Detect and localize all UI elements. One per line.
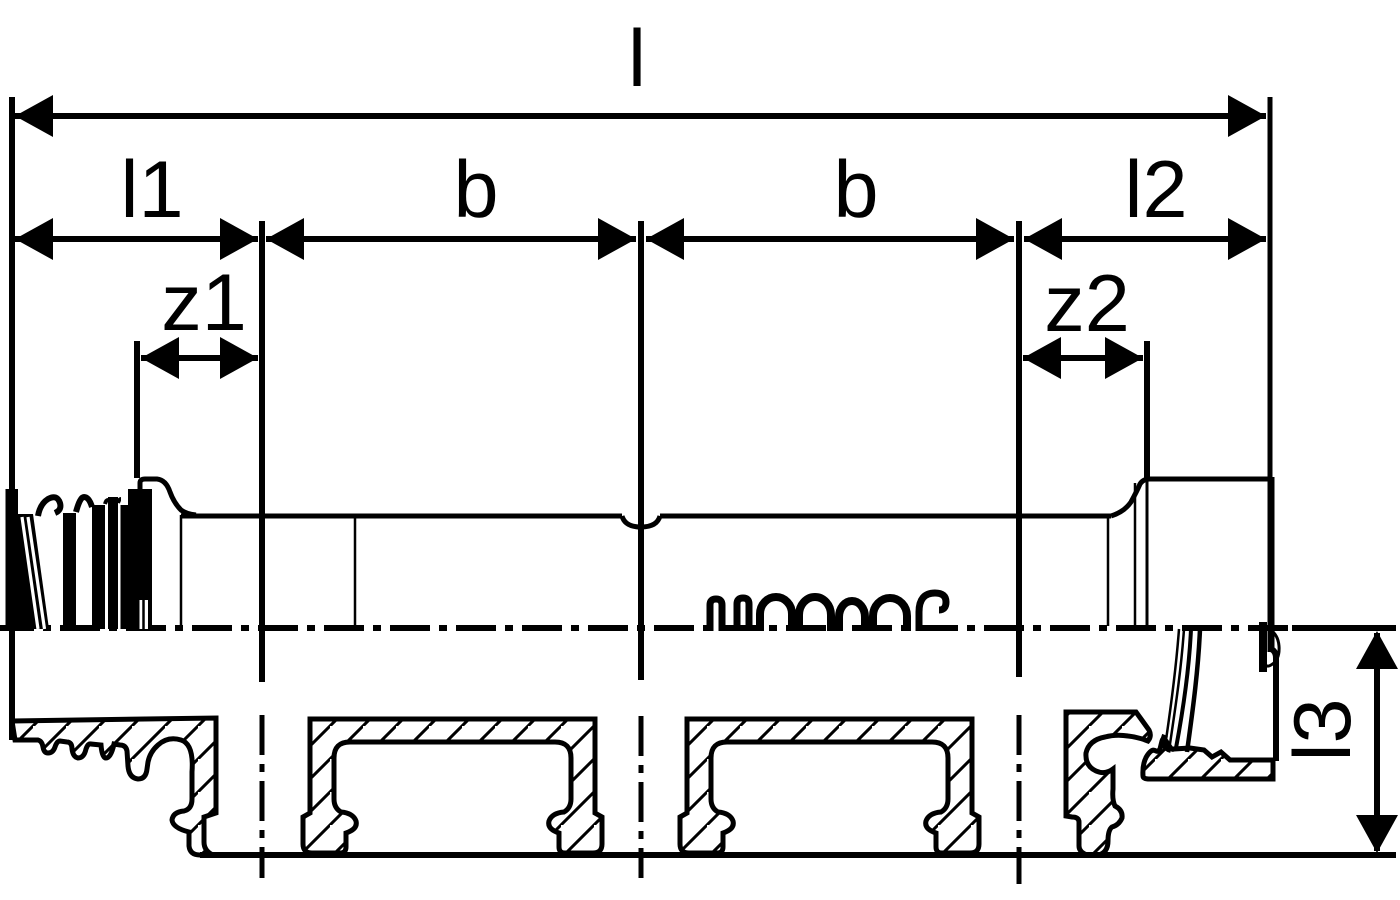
right collar top	[1147, 477, 1270, 482]
thin edge line x=181	[180, 515, 183, 627]
right end face	[1268, 477, 1275, 652]
extension line z1 (x=137)	[134, 341, 140, 478]
thin edge line x=1135	[1134, 483, 1137, 626]
svg-text:b: b	[833, 145, 878, 235]
socket right wall line	[1271, 649, 1276, 761]
dimension line l1	[15, 236, 258, 242]
thin edge line x=1108	[1107, 517, 1110, 626]
thin edge line x=355	[354, 515, 357, 627]
heating coil squiggle	[710, 593, 946, 631]
section piece A (left serrated)	[12, 718, 216, 855]
dimension line z2	[1023, 355, 1143, 361]
dimension line l2	[1024, 236, 1266, 242]
svg-text:l: l	[628, 14, 646, 104]
section piece B (first bridge)	[303, 719, 602, 853]
right collar inner edge x=1147	[1146, 478, 1149, 626]
dimension line z1	[141, 355, 258, 361]
left collar hump	[140, 479, 196, 515]
svg-text:l2: l2	[1124, 145, 1187, 235]
dimension line l3	[1374, 633, 1380, 851]
extension line z2 (x=1147)	[1144, 341, 1150, 478]
ribbed spigot block	[6, 489, 153, 629]
extension line b/b centre (x=641)	[638, 221, 644, 680]
section piece D pocket floor bar	[1143, 739, 1273, 779]
svg-text:l3: l3	[1278, 698, 1368, 761]
section piece D top blob	[1066, 712, 1150, 855]
svg-text:b: b	[453, 145, 498, 235]
section piece C (second bridge)	[680, 719, 979, 853]
extension line left (x=12)	[9, 97, 15, 740]
extension line right (x=1270)	[1268, 97, 1273, 478]
right collar S-curve	[1111, 479, 1150, 516]
seal lip lines	[1163, 629, 1200, 752]
svg-text:z1: z1	[161, 258, 247, 348]
dimension line b (first)	[266, 236, 636, 242]
centre line (dash-dot)	[0, 625, 1290, 631]
svg-text:z2: z2	[1044, 259, 1130, 349]
extension line l1/b (x=262, solid then dash-dot)	[259, 221, 265, 682]
extension line l3 bottom (y=855)	[200, 852, 1396, 858]
pipe top outline	[181, 514, 622, 519]
extension line b/l2 (x=1019)	[1016, 221, 1022, 677]
dimension line l	[15, 113, 1266, 119]
svg-text:l1: l1	[120, 145, 183, 235]
dimension line b (second)	[646, 236, 1014, 242]
seal lip at mouth	[1259, 622, 1267, 672]
centre notch	[622, 516, 660, 527]
